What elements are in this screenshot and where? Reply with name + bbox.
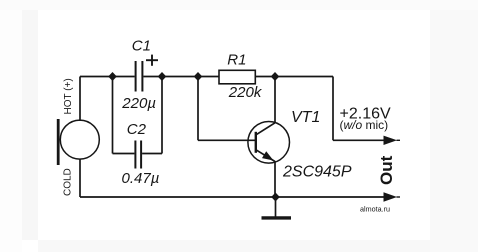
svg-text:220µ: 220µ (121, 95, 156, 112)
svg-text:220k: 220k (228, 84, 263, 101)
svg-text:HOT (+): HOT (+) (63, 78, 74, 114)
svg-text:2SC945P: 2SC945P (282, 164, 352, 181)
svg-text:0.47µ: 0.47µ (122, 170, 160, 187)
svg-text:C2: C2 (127, 121, 147, 138)
svg-text:COLD: COLD (63, 168, 74, 196)
svg-text:Out: Out (377, 155, 396, 185)
svg-text:VT1: VT1 (291, 109, 320, 126)
svg-text:C1: C1 (132, 38, 151, 55)
svg-text:(w/o mic): (w/o mic) (340, 118, 389, 132)
svg-text:R1: R1 (227, 52, 246, 69)
svg-text:almota.ru: almota.ru (360, 205, 390, 214)
